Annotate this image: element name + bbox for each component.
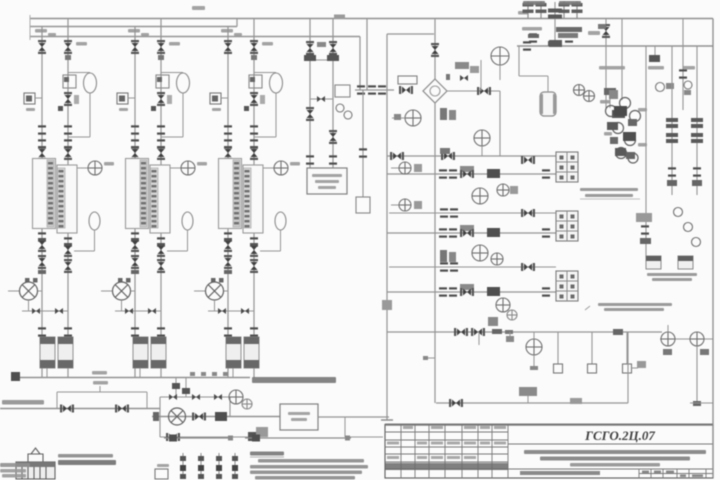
dehydration unit cluster circles: [606, 98, 641, 164]
wire left manifold: [386, 34, 388, 420]
vessel label line 2: [652, 278, 692, 281]
train 3 blowdown valve a: [218, 308, 226, 314]
burner gauge: [526, 339, 542, 355]
building band: [16, 462, 55, 467]
wire vent drop: [518, 46, 520, 76]
train 2 drain return wire: [167, 250, 188, 252]
tie-in pipe b: [185, 378, 187, 397]
train 3 gauge stub: [221, 97, 228, 99]
train 3 inlet valve left: [224, 40, 232, 54]
dark box pair b: [449, 110, 456, 120]
train 1 upper nozzle flange left: [38, 139, 46, 148]
heater row 3 control valve: [460, 288, 474, 296]
train 2 meter right stub: [131, 290, 135, 292]
train 2 adsorber B bed: [151, 168, 159, 228]
vent flange a: [529, 33, 537, 42]
train 3 flange pair right pipe: [250, 125, 258, 134]
dehydration dark fitting c: [623, 132, 636, 141]
train 2 lower valve left: [131, 238, 139, 252]
train 3 inlet valve right: [250, 40, 258, 54]
wire loop top: [387, 33, 434, 35]
train 3 gauge wire: [264, 167, 275, 169]
right drop pipe A: [696, 346, 698, 403]
wire header C drop: [359, 37, 361, 91]
train 1 pot inlet flange left: [38, 327, 46, 336]
train 1 gauge box tag: [26, 108, 35, 111]
heater row 2 control valve: [460, 229, 474, 237]
unit4 crossover upper: [310, 59, 333, 61]
heater row 3 heater grid: [556, 271, 578, 301]
train 3 gauge box tag: [212, 108, 221, 111]
train 2 flow meter: [113, 282, 131, 300]
train 1 bypass top wire: [68, 72, 90, 74]
train 3 flow meter: [206, 282, 224, 300]
wire drop x500: [499, 91, 501, 156]
train 2 instrument tap b: [167, 95, 172, 104]
filter column A pipe: [671, 46, 673, 195]
legend square tag: [157, 464, 169, 467]
assembly right riser: [229, 397, 231, 417]
train 1 adsorber vessel B: [57, 165, 77, 233]
building symbol: [16, 448, 55, 479]
tag right of vents: [588, 31, 600, 35]
train 1 gauge wire: [78, 167, 89, 169]
wire y91 east run: [447, 90, 500, 92]
heater row 3 flange a: [439, 287, 447, 296]
gauge PI mid-left: [405, 110, 421, 126]
heater row 1 grid divider v: [566, 152, 568, 182]
train 1 flow meter: [20, 282, 38, 300]
train 2 isolation valve right: [157, 259, 165, 273]
assembly gauge a: [229, 390, 243, 404]
manifold box y205: [414, 201, 422, 209]
small instrument circle b: [684, 81, 692, 89]
train 3 pot B: [244, 337, 259, 368]
heater upper-entry wire y267: [389, 266, 556, 268]
legend line 1: [164, 437, 233, 439]
train 3 adsorber vessel B: [243, 165, 263, 233]
burner gauge stem: [533, 332, 535, 339]
diamond mixer: [423, 79, 447, 103]
condensate vessel wall L: [540, 94, 543, 114]
below-row gauge b: [507, 310, 517, 320]
inter-row gauge 1a: [472, 188, 488, 204]
title block row texts: [387, 426, 506, 459]
train 3 lower flange right: [250, 237, 258, 246]
gauge PI stem: [499, 65, 501, 80]
unit4 crossover valve: [317, 96, 325, 102]
burner square x558: [554, 364, 563, 373]
label regulator line 1: [580, 188, 638, 191]
notes line 3: [250, 471, 362, 475]
train 3 adsorber A bed: [233, 160, 240, 227]
train 3 pot B outlet: [253, 368, 255, 378]
vent top label a: [523, 1, 545, 5]
label regulator line 2: [585, 194, 633, 197]
dehydration dark fitting g: [626, 152, 635, 159]
inter-row box 1: [510, 186, 518, 194]
fitting x510: [506, 336, 514, 342]
metering unit box: [280, 404, 318, 430]
unit4 crossover lower: [310, 98, 333, 100]
notes header: [250, 452, 284, 456]
train 3 instrument tap a: [244, 106, 249, 111]
burner square x627: [623, 364, 632, 373]
train 2 inlet valve left: [131, 40, 139, 54]
train 1 instrument tap a: [58, 106, 63, 111]
right gauge block A: [663, 349, 672, 355]
train 2 filter box: [156, 75, 169, 88]
unit4 crossover fitting right: [327, 55, 339, 61]
metering box text 2: [291, 418, 307, 421]
train 1 blowdown valve a: [32, 308, 40, 314]
flange y213 b: [450, 208, 458, 217]
legend line 1 end: [228, 436, 233, 441]
wire drop x606: [605, 19, 607, 109]
unit4 mid valve right: [329, 130, 337, 144]
unit4 valve right: [329, 41, 337, 55]
filter column B flange 1: [691, 118, 703, 122]
heater row 2 grid divider h2: [556, 230, 578, 232]
train 1 lower valve left: [38, 238, 46, 252]
title text line 3: [570, 463, 660, 467]
train 2 drain pot oval: [182, 212, 193, 230]
right label b: [648, 66, 664, 70]
fitting burner e: [505, 330, 513, 334]
train 3 pot inlet flange left: [224, 327, 232, 336]
filter column B lower fitting: [692, 180, 702, 186]
train 1 blowdown valve b: [55, 308, 63, 314]
assembly top wire: [160, 396, 230, 398]
heater row 2 actuator: [460, 225, 474, 231]
valve y156 b: [441, 152, 455, 160]
train 3 tap mark a: [211, 278, 216, 283]
flange x683: [679, 69, 687, 78]
flange pair cross run a: [357, 85, 365, 94]
train 2 nozzle valve right: [157, 146, 165, 160]
heater row 1 flange a: [439, 169, 447, 178]
burner square stub: [632, 367, 639, 369]
train 2 tap mark b: [126, 278, 131, 283]
wire drop to drain box: [362, 90, 364, 197]
heater row 1 wire: [387, 173, 556, 175]
title block left columns: [385, 425, 508, 479]
train 2 nozzle valve left: [131, 146, 139, 160]
valve bottom run: [449, 399, 463, 407]
train 1 valve tag: [76, 42, 87, 46]
train 2 isolation valve left: [131, 255, 139, 269]
condensate vessel wall R: [553, 94, 556, 114]
heater row 2 flange c: [542, 228, 550, 237]
wire riser from header A: [366, 19, 368, 91]
consumer valve a: [60, 405, 74, 413]
train 2 meter drop wire: [121, 300, 123, 311]
train 2 pot inlet flange left: [131, 327, 139, 336]
small instrument circle a: [656, 83, 665, 92]
train 1 valve actuator: [65, 55, 71, 60]
gauge chain right: [674, 208, 701, 247]
flange y213 a: [440, 208, 448, 217]
wire run y156: [387, 155, 556, 157]
unit4 left pipe: [309, 19, 311, 169]
heater row 3 grid divider h1: [556, 280, 578, 282]
train 3 adsorber vessel A: [219, 159, 242, 229]
train 3 pot A outlet: [232, 368, 234, 378]
box on bottom run: [570, 398, 582, 404]
wire header left end tick: [29, 15, 31, 40]
train 1 lower flange right: [64, 237, 72, 246]
building label line 2: [58, 460, 116, 465]
unit4 actuator: [317, 42, 326, 47]
heater row 3 regulator valve: [487, 287, 500, 296]
train 2 adsorber A bed: [140, 160, 147, 227]
train 1 bypass return wire: [68, 136, 90, 138]
train 2 adsorber vessel B: [150, 165, 170, 233]
vent stack 3: [563, 1, 565, 19]
small instrument box b: [684, 90, 691, 95]
gauge PI mid-right: [474, 130, 490, 146]
diamond inner circle: [430, 86, 440, 96]
tie-in pipe a: [175, 378, 177, 397]
manifold stub y168: [391, 167, 399, 169]
inter-row gauge 1b: [497, 184, 509, 196]
train 1 pressure gauge: [88, 161, 102, 175]
heater label leader: [585, 306, 590, 310]
train 1 isolation valve right: [64, 259, 72, 273]
train 2 valve below filter: [157, 92, 165, 106]
train 1 drain down wire: [94, 230, 96, 251]
train 2 bypass loop oval: [177, 73, 190, 93]
wire gauge drop x481: [480, 60, 482, 91]
right gauge A: [661, 332, 675, 346]
wire secondary header y46: [517, 45, 713, 47]
title block number divider: [508, 443, 713, 445]
train 2 instrument tap a: [151, 106, 156, 111]
fitting x606 low: [604, 88, 616, 95]
dehydration tag b: [638, 108, 647, 112]
flange y267 b: [450, 262, 458, 271]
train 3 filter mark: [250, 77, 255, 82]
bypass tick: [99, 386, 101, 392]
train 2 filter mark: [157, 77, 162, 82]
valve on y91 run: [477, 87, 491, 95]
label train 2 takeoff: [128, 29, 140, 33]
train 1 pot B: [58, 337, 73, 368]
wire drop x622: [621, 19, 623, 101]
assembly valve bottom: [166, 433, 180, 441]
flange y267 a: [440, 262, 448, 271]
train 2 pot inlet flange right: [157, 327, 165, 336]
train 2 drain down wire: [187, 230, 189, 251]
train 3 valve actuator: [251, 55, 257, 60]
dehydration tag c: [604, 132, 612, 136]
flange on drain drop: [359, 148, 367, 157]
heater row 3 actuator: [460, 284, 474, 290]
wire drop x683: [682, 19, 684, 111]
assembly valve top b: [192, 394, 200, 400]
heater row 1 grid divider h2: [556, 171, 578, 173]
heater row 3 grid divider v: [566, 271, 568, 301]
tick above collector x190: [190, 372, 195, 376]
vent tee fitting: [549, 40, 562, 47]
train 1 right pipe: [67, 19, 69, 379]
train 3 isolation valve left: [224, 255, 232, 269]
label train 1 takeoff: [35, 29, 47, 33]
train 3 pot inlet flange right: [250, 327, 258, 336]
train 2 gauge stub: [128, 97, 135, 99]
train 3 meter left stub: [194, 290, 205, 292]
train 3 left pipe: [227, 27, 229, 379]
vent stack 1: [527, 1, 529, 19]
train 3 lower valve right: [250, 243, 258, 257]
burner square x592: [588, 364, 597, 373]
train 3 filter box: [249, 75, 262, 88]
train 3 adsorber B bed: [244, 168, 252, 228]
train 1 valve below filter: [64, 92, 72, 106]
train 3 upper nozzle flange right: [250, 139, 258, 148]
heater row 1 flange c: [542, 169, 550, 178]
filter column A flange 3: [666, 133, 678, 137]
right gauge pair b: [584, 91, 595, 102]
legend valve symbol 4: [232, 453, 238, 479]
fitting y156: [440, 148, 450, 154]
assembly bottom wire: [160, 436, 255, 438]
train 2 upper nozzle flange left: [131, 139, 139, 148]
train 2 bypass top wire: [161, 72, 183, 74]
train 3 valve tag: [262, 42, 273, 46]
train 2 tap mark a: [118, 278, 123, 283]
train 1 lower valve right: [64, 243, 72, 257]
small mark near valve: [446, 74, 450, 80]
notes header underline: [250, 456, 284, 458]
filter column B flange 2: [691, 124, 703, 128]
dehydration dark fitting a: [614, 106, 627, 116]
legend valve symbol 2: [198, 453, 204, 479]
train 1 meter right stub: [38, 290, 42, 292]
train 1 filter mark: [64, 77, 69, 82]
manifold box y168: [414, 164, 422, 172]
train 2 pressure gauge: [181, 161, 195, 175]
legend line 2 node: [252, 435, 260, 442]
train 3 bypass loop oval: [270, 73, 283, 93]
train 1 level gauge mark: [26, 96, 32, 102]
wire cross run y90: [355, 89, 394, 91]
heater row 1 flange b: [449, 169, 457, 178]
train 2 level gauge box: [117, 93, 128, 104]
burner drop x627: [626, 332, 628, 364]
train 2 pot B: [151, 337, 166, 368]
collector tag: [92, 371, 107, 375]
train 2 blowdown wire: [115, 310, 161, 312]
train 3 upper nozzle flange left: [224, 139, 232, 148]
right fitting block: [640, 238, 651, 244]
vent top label b: [559, 1, 581, 5]
wire main inlet header A: [30, 18, 713, 20]
corner table row 3: [2, 474, 26, 478]
inter-row gauge 2a: [472, 245, 488, 261]
right label a: [599, 66, 625, 70]
control valve actuator: [398, 76, 417, 84]
assembly valve top c: [214, 394, 222, 400]
train 3 nozzle valve right: [250, 146, 258, 160]
stub x510: [509, 332, 511, 341]
heater upper-entry wire y213: [389, 212, 556, 214]
filter column A flange 4: [666, 139, 678, 143]
heater row 1 grid divider h1: [556, 161, 578, 163]
right small box: [636, 213, 652, 222]
flange on header y46: [523, 41, 531, 50]
fitting stub: [527, 396, 529, 403]
train 1 adsorber B bed: [58, 168, 66, 228]
dark band below busA a: [556, 27, 582, 32]
title text line 1: [524, 450, 706, 454]
metering box text 1: [288, 412, 310, 415]
tick mark: [423, 356, 428, 360]
heater row 3 wire: [387, 291, 556, 293]
right gauge pair a: [574, 85, 585, 96]
train 3 right pipe: [253, 19, 255, 379]
below-row box: [488, 317, 498, 326]
consumer valve b: [115, 405, 129, 413]
train 3 lower flange left: [224, 232, 232, 241]
unit4 small gauge a: [336, 104, 344, 112]
train 1 upper nozzle flange right: [64, 139, 72, 148]
legend line 1 node: [169, 435, 177, 442]
assembly left riser: [159, 397, 161, 437]
train 1 gauge tag: [104, 162, 114, 166]
train 2 takeoff tag: [141, 33, 149, 36]
filter column A flange 2: [666, 124, 678, 128]
assembly gauge b: [242, 399, 252, 409]
filter column B pipe: [696, 46, 698, 195]
legend valve symbol 1: [180, 453, 186, 479]
filter column A flange 1: [666, 118, 678, 122]
box at x606 valve: [598, 24, 606, 29]
manifold gauge y205: [399, 199, 411, 211]
legend valve symbol 3: [216, 453, 222, 479]
vent stack 4: [576, 1, 578, 19]
train 1 adsorber A bed: [47, 160, 54, 227]
corner table row 2: [0, 469, 26, 473]
wire outlet collector: [20, 377, 250, 379]
valve y213: [521, 209, 535, 217]
train 2 pot A outlet: [139, 368, 141, 378]
tick above collector x201: [201, 372, 206, 376]
corner table row 1: [0, 463, 30, 467]
burner drop x592: [591, 332, 593, 364]
right gauge stem: [667, 325, 669, 332]
manifold fitting box: [382, 300, 392, 310]
vent riser tee dark: [548, 41, 562, 46]
heater row 2 heater grid: [556, 211, 578, 241]
train 3 isolation valve right: [250, 259, 258, 273]
train 1 lower flange left: [38, 232, 46, 241]
train 3 flange pair left pipe: [224, 125, 232, 134]
valve burner b: [471, 328, 485, 336]
wire along title top: [345, 436, 383, 438]
dark blob x620 low: [612, 110, 625, 118]
dehydration dark fitting d: [615, 148, 626, 156]
vent fitting b: [564, 34, 575, 38]
train 1 inlet valve right: [64, 40, 72, 54]
small vessel B: [678, 256, 693, 269]
wire consumer line: [0, 408, 160, 410]
train 1 nozzle valve left: [38, 146, 46, 160]
unit4 crossover fitting left: [304, 55, 316, 61]
train 1 isolation valve left: [38, 255, 46, 269]
train 3 lower valve left: [224, 238, 232, 252]
title block signature row dark: [385, 463, 508, 470]
